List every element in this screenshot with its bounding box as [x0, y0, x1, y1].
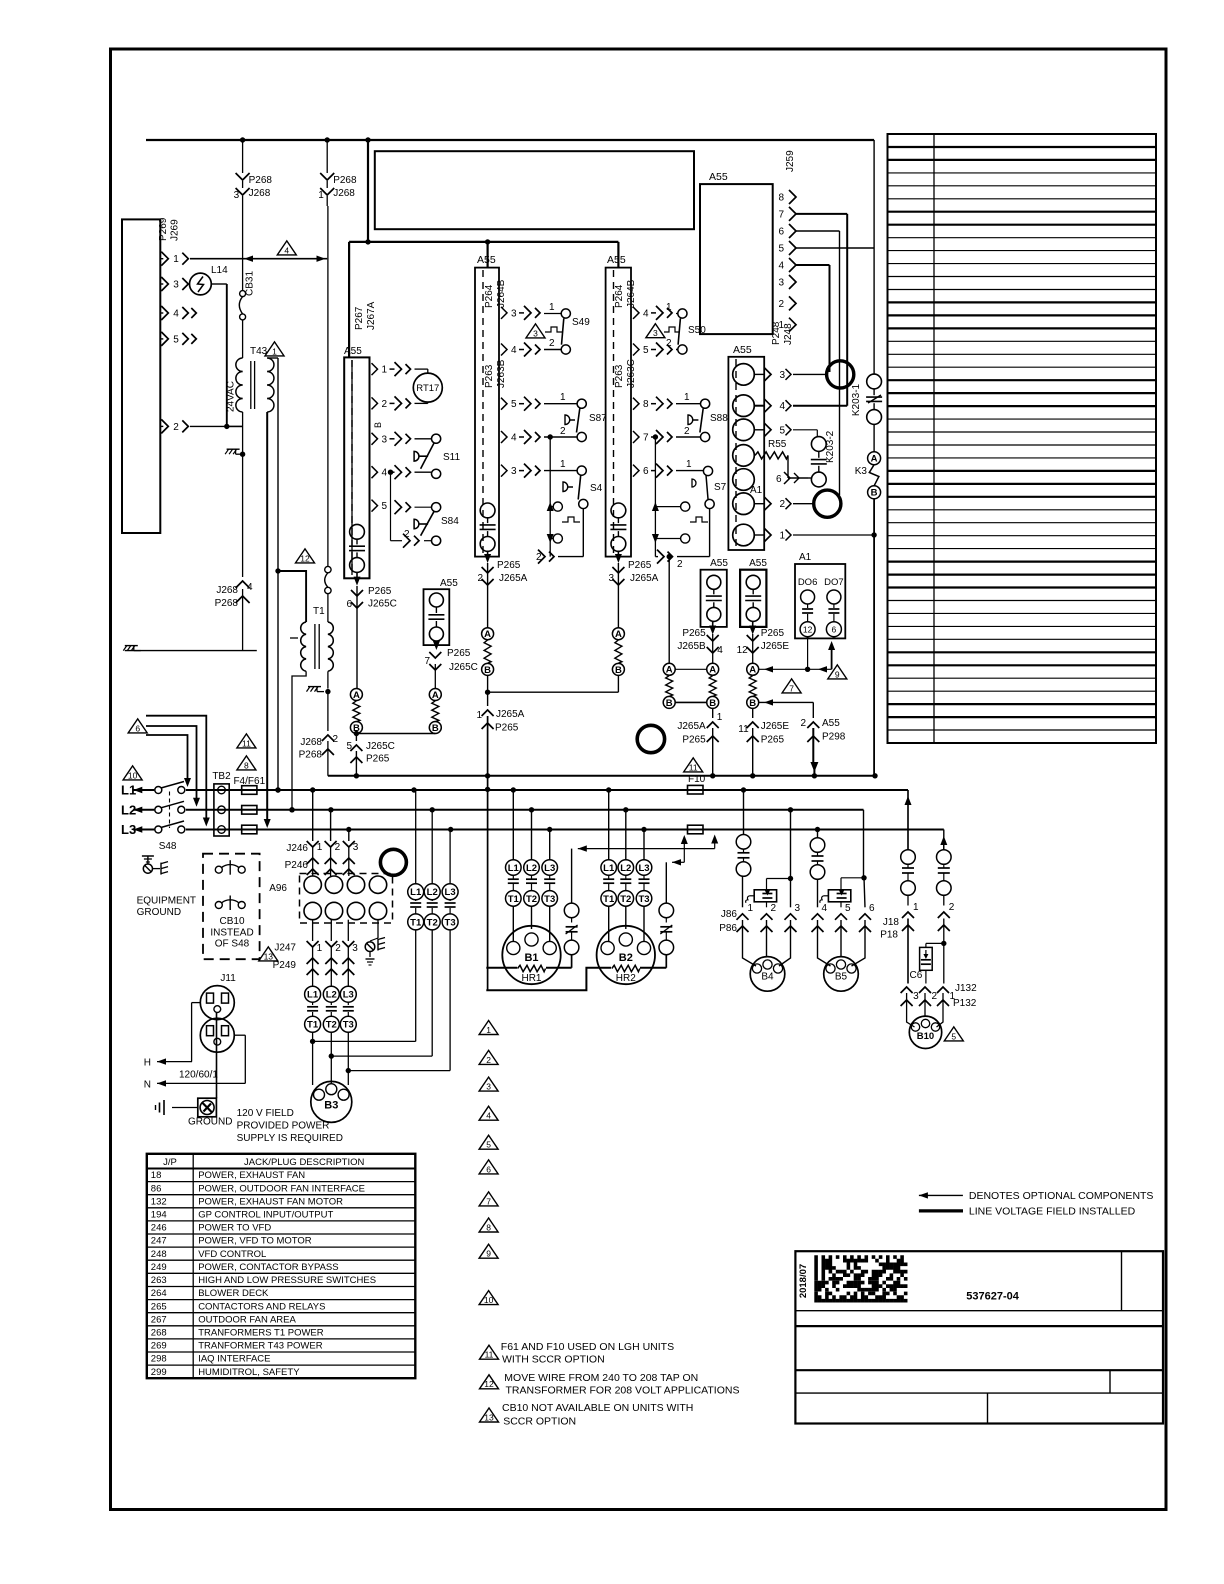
svg-text:6: 6 — [832, 625, 837, 635]
svg-text:J267A: J267A — [366, 301, 377, 330]
svg-text:P265: P265 — [447, 648, 471, 659]
svg-text:4: 4 — [284, 245, 289, 255]
svg-text:J86: J86 — [721, 909, 738, 920]
svg-text:B: B — [871, 488, 878, 499]
svg-text:A: A — [432, 690, 439, 701]
svg-text:8: 8 — [486, 1222, 491, 1232]
svg-text:P265: P265 — [368, 586, 392, 597]
svg-text:S84: S84 — [441, 516, 459, 527]
svg-text:B: B — [709, 698, 716, 709]
svg-text:1: 1 — [560, 459, 566, 470]
svg-text:SUPPLY IS REQUIRED: SUPPLY IS REQUIRED — [237, 1133, 343, 1144]
svg-text:S48: S48 — [159, 841, 177, 852]
svg-text:HR2: HR2 — [616, 973, 636, 984]
svg-text:5: 5 — [511, 399, 517, 410]
svg-text:K203-2: K203-2 — [825, 430, 836, 463]
svg-text:P248: P248 — [771, 321, 782, 345]
svg-text:2: 2 — [560, 426, 566, 437]
svg-text:3: 3 — [780, 370, 786, 381]
svg-text:5: 5 — [780, 425, 786, 436]
svg-text:A: A — [353, 690, 360, 701]
svg-text:A55: A55 — [477, 254, 496, 266]
svg-text:6: 6 — [486, 1164, 491, 1174]
svg-text:269: 269 — [151, 1341, 167, 1352]
svg-text:2: 2 — [486, 1055, 491, 1065]
svg-text:HR1: HR1 — [521, 973, 541, 984]
svg-text:P268: P268 — [333, 175, 357, 186]
svg-text:T1: T1 — [313, 606, 325, 617]
svg-text:7: 7 — [643, 433, 649, 444]
svg-text:P265: P265 — [366, 754, 390, 765]
svg-text:264: 264 — [151, 1288, 167, 1299]
svg-text:T3: T3 — [544, 894, 555, 905]
svg-text:5: 5 — [346, 741, 352, 752]
svg-text:2: 2 — [780, 499, 786, 510]
svg-text:L14: L14 — [211, 265, 228, 276]
svg-text:T2: T2 — [526, 894, 537, 905]
svg-text:3: 3 — [382, 434, 388, 445]
svg-text:6: 6 — [778, 227, 784, 238]
svg-text:6: 6 — [643, 466, 649, 477]
svg-text:2: 2 — [778, 299, 784, 310]
svg-text:4: 4 — [780, 401, 786, 412]
svg-text:GROUND: GROUND — [188, 1117, 232, 1128]
svg-text:11: 11 — [242, 738, 251, 748]
svg-text:4: 4 — [382, 468, 388, 479]
svg-text:T2: T2 — [427, 917, 438, 928]
svg-text:194: 194 — [151, 1210, 167, 1221]
svg-text:IAQ INTERFACE: IAQ INTERFACE — [198, 1354, 270, 1365]
svg-text:T2: T2 — [326, 1020, 337, 1031]
svg-text:1: 1 — [686, 459, 692, 470]
svg-text:1: 1 — [549, 302, 555, 313]
svg-text:7: 7 — [486, 1196, 491, 1206]
svg-text:A96: A96 — [269, 883, 287, 894]
svg-text:2: 2 — [333, 734, 339, 745]
svg-text:B10: B10 — [917, 1031, 934, 1042]
svg-text:J265C: J265C — [366, 741, 395, 752]
svg-text:8: 8 — [643, 399, 649, 410]
svg-text:K203-1: K203-1 — [851, 383, 862, 416]
svg-text:F61 AND F10 USED ON LGH UNITS: F61 AND F10 USED ON LGH UNITS — [501, 1341, 674, 1353]
svg-text:247: 247 — [151, 1236, 167, 1247]
svg-text:L1: L1 — [121, 783, 136, 798]
svg-text:7: 7 — [789, 683, 794, 693]
svg-text:1: 1 — [317, 842, 323, 853]
svg-text:T1: T1 — [508, 894, 520, 905]
svg-text:A55: A55 — [440, 578, 458, 589]
svg-text:JACK/PLUG DESCRIPTION: JACK/PLUG DESCRIPTION — [244, 1157, 364, 1168]
svg-text:4: 4 — [643, 308, 649, 319]
svg-text:2: 2 — [335, 842, 341, 853]
svg-text:T3: T3 — [343, 1020, 354, 1031]
svg-text:3: 3 — [234, 190, 240, 201]
svg-text:1: 1 — [780, 531, 786, 542]
svg-text:A55: A55 — [607, 254, 626, 266]
svg-text:P249: P249 — [273, 960, 297, 971]
svg-text:J265C: J265C — [449, 662, 478, 673]
svg-text:7: 7 — [424, 656, 430, 667]
svg-text:P298: P298 — [822, 732, 846, 743]
svg-text:4: 4 — [822, 903, 828, 914]
svg-text:3: 3 — [173, 280, 179, 291]
svg-text:4: 4 — [511, 433, 517, 444]
svg-text:POWER, CONTACTOR BYPASS: POWER, CONTACTOR BYPASS — [198, 1262, 338, 1273]
svg-text:1: 1 — [560, 392, 566, 403]
svg-text:10: 10 — [484, 1295, 494, 1305]
svg-text:L2: L2 — [121, 802, 136, 817]
svg-text:4: 4 — [247, 582, 253, 593]
svg-text:1: 1 — [748, 903, 754, 914]
svg-text:1: 1 — [950, 991, 956, 1002]
svg-text:SCCR OPTION: SCCR OPTION — [503, 1416, 576, 1428]
svg-text:BLOWER DECK: BLOWER DECK — [198, 1288, 269, 1299]
svg-text:A: A — [871, 454, 878, 465]
svg-text:2: 2 — [666, 338, 672, 349]
svg-text:B4: B4 — [761, 972, 774, 983]
svg-text:POWER, EXHAUST FAN MOTOR: POWER, EXHAUST FAN MOTOR — [198, 1196, 343, 1207]
svg-text:11: 11 — [689, 762, 698, 772]
svg-text:3: 3 — [608, 573, 614, 584]
svg-text:HIGH AND LOW PRESSURE SWITCHES: HIGH AND LOW PRESSURE SWITCHES — [198, 1275, 376, 1286]
svg-text:J268: J268 — [249, 188, 271, 199]
svg-text:3: 3 — [511, 308, 517, 319]
svg-text:TRANFORMER T43 POWER: TRANFORMER T43 POWER — [198, 1341, 323, 1352]
svg-text:1: 1 — [684, 392, 690, 403]
svg-text:L3: L3 — [544, 863, 555, 874]
svg-text:3: 3 — [511, 466, 517, 477]
svg-text:B: B — [432, 723, 439, 734]
svg-text:86: 86 — [151, 1183, 162, 1194]
svg-text:A: A — [484, 629, 491, 640]
svg-text:PROVIDED POWER: PROVIDED POWER — [237, 1121, 330, 1132]
svg-text:A55: A55 — [733, 344, 752, 356]
svg-text:J268: J268 — [216, 585, 238, 596]
svg-text:WITH SCCR OPTION: WITH SCCR OPTION — [502, 1354, 605, 1366]
svg-text:A: A — [749, 665, 756, 676]
svg-text:J11: J11 — [220, 973, 236, 984]
svg-text:B3: B3 — [324, 1100, 338, 1112]
svg-text:6: 6 — [346, 599, 352, 610]
svg-text:T1: T1 — [307, 1020, 319, 1031]
svg-text:GP CONTROL INPUT/OUTPUT: GP CONTROL INPUT/OUTPUT — [198, 1210, 333, 1221]
svg-text:L3: L3 — [638, 863, 649, 874]
svg-text:L1: L1 — [307, 990, 319, 1001]
svg-text:L2: L2 — [526, 863, 537, 874]
svg-text:1: 1 — [382, 365, 388, 376]
svg-text:3: 3 — [653, 328, 658, 338]
svg-text:CB31: CB31 — [245, 271, 256, 296]
svg-text:S49: S49 — [572, 317, 590, 328]
svg-text:L2: L2 — [326, 990, 337, 1001]
svg-text:18: 18 — [151, 1170, 162, 1181]
svg-text:J265A: J265A — [677, 721, 706, 732]
svg-text:B5: B5 — [835, 972, 848, 983]
svg-text:TB2: TB2 — [212, 771, 231, 782]
svg-text:249: 249 — [151, 1262, 167, 1273]
svg-text:24VAC: 24VAC — [226, 381, 237, 412]
svg-text:RT17: RT17 — [416, 383, 439, 394]
svg-text:1: 1 — [272, 346, 277, 356]
svg-text:L1: L1 — [410, 887, 422, 898]
svg-text:S50: S50 — [688, 325, 706, 336]
svg-text:CB10 NOT AVAILABLE ON UNITS WI: CB10 NOT AVAILABLE ON UNITS WITH — [502, 1402, 693, 1414]
svg-text:268: 268 — [151, 1328, 167, 1339]
svg-text:2: 2 — [771, 903, 777, 914]
svg-text:7: 7 — [778, 209, 784, 220]
svg-text:J265E: J265E — [761, 641, 790, 652]
svg-text:265: 265 — [151, 1301, 167, 1312]
svg-text:5: 5 — [486, 1140, 491, 1150]
svg-text:P264: P264 — [614, 284, 625, 308]
svg-text:299: 299 — [151, 1367, 167, 1378]
svg-text:3: 3 — [486, 1082, 491, 1092]
svg-text:J268: J268 — [300, 737, 322, 748]
svg-text:P268: P268 — [299, 750, 323, 761]
svg-text:J248: J248 — [783, 323, 794, 345]
svg-text:J/P: J/P — [163, 1157, 177, 1168]
svg-text:T1: T1 — [603, 894, 615, 905]
svg-text:CONTACTORS AND RELAYS: CONTACTORS AND RELAYS — [198, 1301, 325, 1312]
svg-text:A: A — [709, 665, 716, 676]
svg-text:POWER, EXHAUST FAN: POWER, EXHAUST FAN — [198, 1170, 305, 1181]
svg-text:4: 4 — [778, 261, 784, 272]
svg-text:267: 267 — [151, 1314, 167, 1325]
svg-text:B: B — [749, 698, 756, 709]
svg-text:1: 1 — [486, 1025, 491, 1035]
svg-text:2: 2 — [382, 399, 388, 410]
svg-text:H: H — [144, 1058, 151, 1069]
svg-text:J259: J259 — [785, 150, 796, 172]
svg-text:9: 9 — [835, 669, 840, 679]
svg-text:EQUIPMENT: EQUIPMENT — [137, 896, 196, 907]
svg-text:OF S48: OF S48 — [215, 939, 250, 950]
svg-text:A55: A55 — [822, 718, 840, 729]
svg-text:B2: B2 — [619, 952, 633, 964]
svg-text:2: 2 — [536, 552, 542, 563]
svg-text:VFD CONTROL: VFD CONTROL — [198, 1249, 266, 1260]
svg-text:A1: A1 — [799, 552, 812, 563]
svg-text:8: 8 — [778, 193, 784, 204]
svg-text:4: 4 — [173, 309, 179, 320]
svg-text:11: 11 — [738, 724, 749, 735]
svg-text:2018/07: 2018/07 — [798, 1264, 809, 1298]
svg-text:TRANFORMERS T1 POWER: TRANFORMERS T1 POWER — [198, 1328, 324, 1339]
svg-text:9: 9 — [486, 1249, 491, 1259]
svg-text:5: 5 — [778, 244, 784, 255]
svg-text:CB10: CB10 — [219, 916, 244, 927]
svg-text:1: 1 — [318, 190, 324, 201]
svg-text:J247: J247 — [274, 943, 296, 954]
svg-text:12: 12 — [300, 553, 310, 563]
svg-text:132: 132 — [151, 1196, 167, 1207]
svg-text:J263B: J263B — [496, 359, 507, 388]
svg-text:A55: A55 — [749, 558, 767, 569]
svg-text:4: 4 — [486, 1111, 491, 1121]
svg-text:S87: S87 — [589, 413, 607, 424]
svg-text:B: B — [615, 665, 622, 676]
svg-text:2: 2 — [684, 426, 690, 437]
svg-text:3: 3 — [795, 903, 801, 914]
svg-text:P265: P265 — [682, 735, 706, 746]
svg-text:1: 1 — [913, 902, 919, 913]
svg-text:C6: C6 — [910, 970, 923, 981]
svg-text:4: 4 — [717, 645, 723, 656]
svg-text:11: 11 — [485, 1350, 494, 1360]
svg-text:POWER TO VFD: POWER TO VFD — [198, 1223, 271, 1234]
svg-text:MOVE WIRE FROM 240 TO 208 TAP: MOVE WIRE FROM 240 TO 208 TAP ON — [504, 1372, 698, 1384]
svg-text:P269: P269 — [158, 217, 169, 241]
svg-text:12: 12 — [737, 645, 749, 656]
svg-text:8: 8 — [244, 760, 249, 770]
svg-text:2: 2 — [549, 338, 555, 349]
svg-text:A: A — [666, 665, 673, 676]
svg-text:J246: J246 — [286, 843, 308, 854]
svg-text:J268: J268 — [333, 188, 355, 199]
svg-text:3: 3 — [913, 991, 919, 1002]
svg-text:12: 12 — [484, 1379, 494, 1389]
svg-text:13: 13 — [484, 1412, 494, 1422]
svg-text:P265: P265 — [761, 735, 785, 746]
svg-text:J269: J269 — [170, 219, 181, 241]
svg-text:1: 1 — [476, 710, 482, 721]
svg-text:S11: S11 — [443, 452, 460, 463]
svg-text:A55: A55 — [344, 346, 362, 357]
svg-text:2: 2 — [800, 718, 806, 729]
svg-text:TRANSFORMER FOR 208 VOLT APPLI: TRANSFORMER FOR 208 VOLT APPLICATIONS — [506, 1385, 740, 1397]
svg-text:12: 12 — [803, 625, 813, 635]
svg-text:B: B — [666, 698, 673, 709]
svg-text:T3: T3 — [638, 894, 649, 905]
svg-text:L3: L3 — [121, 822, 136, 837]
svg-text:S4: S4 — [590, 483, 603, 494]
svg-text:2: 2 — [677, 559, 683, 570]
svg-text:L3: L3 — [343, 990, 354, 1001]
svg-text:2: 2 — [173, 422, 179, 433]
svg-text:1: 1 — [317, 943, 323, 954]
svg-text:120/60/1: 120/60/1 — [179, 1070, 218, 1081]
svg-text:537627-04: 537627-04 — [966, 1291, 1019, 1303]
svg-text:3: 3 — [353, 842, 359, 853]
svg-text:J18: J18 — [883, 917, 900, 928]
svg-text:J265B: J265B — [677, 641, 706, 652]
svg-text:B: B — [373, 422, 383, 428]
svg-text:J132: J132 — [955, 983, 977, 994]
svg-text:B: B — [484, 665, 491, 676]
svg-text:A1: A1 — [750, 485, 763, 496]
svg-text:1: 1 — [717, 712, 723, 723]
svg-text:J263C: J263C — [626, 359, 637, 388]
svg-text:K3: K3 — [855, 466, 868, 477]
svg-text:P267: P267 — [354, 306, 365, 330]
svg-text:P263: P263 — [614, 364, 625, 388]
svg-text:L2: L2 — [620, 863, 631, 874]
svg-text:5: 5 — [382, 501, 388, 512]
svg-text:P132: P132 — [953, 998, 977, 1009]
svg-text:P265: P265 — [682, 628, 706, 639]
svg-text:LINE VOLTAGE FIELD INSTALLED: LINE VOLTAGE FIELD INSTALLED — [969, 1206, 1136, 1218]
svg-text:P268: P268 — [215, 598, 239, 609]
svg-text:120 V FIELD: 120 V FIELD — [237, 1108, 294, 1119]
svg-text:N: N — [144, 1079, 151, 1090]
svg-text:3: 3 — [352, 943, 358, 954]
svg-text:L3: L3 — [445, 887, 456, 898]
svg-text:1: 1 — [666, 302, 672, 313]
svg-text:3: 3 — [778, 278, 784, 289]
svg-text:A55: A55 — [709, 171, 728, 183]
svg-text:4: 4 — [511, 345, 517, 356]
svg-text:6: 6 — [869, 903, 875, 914]
svg-text:3: 3 — [533, 328, 538, 338]
svg-text:P265: P265 — [761, 628, 785, 639]
svg-text:298: 298 — [151, 1354, 167, 1365]
svg-text:GROUND: GROUND — [137, 907, 181, 918]
svg-text:T3: T3 — [445, 917, 456, 928]
svg-text:J265E: J265E — [761, 721, 790, 732]
svg-text:T1: T1 — [410, 917, 422, 928]
svg-text:2: 2 — [949, 902, 955, 913]
svg-text:J265A: J265A — [496, 709, 525, 720]
svg-text:263: 263 — [151, 1275, 167, 1286]
svg-text:POWER, VFD TO MOTOR: POWER, VFD TO MOTOR — [198, 1236, 312, 1247]
svg-text:DO7: DO7 — [824, 577, 844, 588]
svg-text:J265A: J265A — [630, 573, 659, 584]
svg-text:J264B: J264B — [496, 279, 507, 308]
svg-text:DO6: DO6 — [798, 577, 818, 588]
svg-text:2: 2 — [335, 943, 341, 954]
svg-text:R55: R55 — [768, 439, 787, 450]
svg-text:J265C: J265C — [368, 599, 397, 610]
svg-text:POWER, OUTDOOR FAN INTERFACE: POWER, OUTDOOR FAN INTERFACE — [198, 1183, 365, 1194]
svg-text:T2: T2 — [620, 894, 631, 905]
svg-text:A55: A55 — [710, 558, 728, 569]
svg-text:P265: P265 — [497, 560, 521, 571]
svg-text:HUMIDITROL, SAFETY: HUMIDITROL, SAFETY — [198, 1367, 300, 1378]
svg-text:P265: P265 — [628, 560, 652, 571]
svg-text:P268: P268 — [249, 175, 273, 186]
svg-text:B1: B1 — [524, 952, 538, 964]
svg-text:P264: P264 — [484, 284, 495, 308]
svg-text:246: 246 — [151, 1223, 167, 1234]
svg-text:5: 5 — [951, 1031, 956, 1041]
svg-text:2: 2 — [477, 573, 483, 584]
svg-text:L1: L1 — [508, 863, 520, 874]
svg-text:INSTEAD: INSTEAD — [210, 927, 253, 938]
svg-text:F10: F10 — [688, 774, 706, 785]
svg-text:S88: S88 — [710, 413, 728, 424]
svg-text:P18: P18 — [880, 930, 898, 941]
svg-text:5: 5 — [845, 903, 851, 914]
svg-text:S7: S7 — [714, 482, 727, 493]
svg-text:P86: P86 — [719, 923, 737, 934]
svg-text:1: 1 — [173, 254, 179, 265]
svg-text:2: 2 — [404, 529, 410, 540]
svg-text:6: 6 — [776, 474, 782, 485]
svg-text:A: A — [615, 629, 622, 640]
svg-text:J265A: J265A — [499, 573, 528, 584]
svg-text:5: 5 — [643, 345, 649, 356]
svg-text:2: 2 — [932, 991, 938, 1002]
svg-text:P265: P265 — [495, 723, 519, 734]
svg-text:P263: P263 — [484, 364, 495, 388]
svg-text:OUTDOOR FAN AREA: OUTDOOR FAN AREA — [198, 1314, 296, 1325]
svg-text:5: 5 — [173, 334, 179, 345]
svg-text:10: 10 — [128, 770, 138, 780]
svg-text:L1: L1 — [603, 863, 615, 874]
svg-text:DENOTES OPTIONAL COMPONENTS: DENOTES OPTIONAL COMPONENTS — [969, 1190, 1154, 1202]
svg-text:L2: L2 — [427, 887, 438, 898]
svg-text:248: 248 — [151, 1249, 167, 1260]
